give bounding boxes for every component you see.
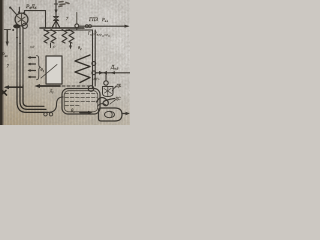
spring valve S2 stem + arrow [70, 43, 72, 47]
right pipe line 1 [92, 30, 94, 88]
flame swirl 2 [98, 104, 107, 106]
left out arrow [6, 86, 22, 88]
valve V1 arrowhead [54, 10, 57, 15]
horizontal wire [66, 29, 93, 31]
valve V1 V-legs [53, 21, 60, 28]
GPZ line [79, 25, 128, 27]
top smudge [59, 2, 69, 7]
nozzle body [103, 87, 114, 97]
box P6D6 outline [25, 11, 46, 28]
svg-text:ГПЗ: ГПЗ [88, 18, 98, 23]
pump bottom blob [13, 24, 20, 28]
spring valve S1 zigzag a [44, 30, 49, 44]
node circle upper right [92, 62, 96, 66]
svg-text:ДС: ДС [114, 96, 121, 101]
nozzle inner hatch [104, 87, 112, 96]
corner smudge [2, 90, 7, 95]
down-arrow tick [4, 29, 10, 31]
curly brace [37, 56, 41, 80]
spring valve S2 zigzag b [69, 30, 74, 44]
thick left arrow mid [38, 85, 60, 87]
nozzle feed wire [105, 75, 107, 82]
heat arrows left [27, 56, 35, 78]
manifold bar [40, 27, 84, 29]
nozzle top circle [104, 81, 108, 85]
svg-text:ДБ: ДБ [115, 83, 122, 88]
s-curve up to box [48, 97, 63, 112]
bundle end circles [44, 113, 47, 116]
node dot [12, 29, 14, 31]
spring valve S2 zigzag a [62, 30, 67, 44]
combustor out arrow [80, 112, 90, 114]
pump U1 circle [15, 13, 28, 26]
paper background [0, 0, 130, 125]
combustor circle node [88, 86, 94, 92]
vertical pipe from pump 2 [19, 28, 21, 86]
leader line [41, 65, 57, 79]
valve V1 top tick [54, 3, 57, 5]
swirl leader [110, 100, 115, 104]
Dpb arrowhead [111, 71, 116, 74]
nozzle leader [112, 86, 116, 91]
servo rectangle [46, 56, 62, 84]
Dpb bowtie 1 [99, 71, 107, 75]
flame swirl 1 [97, 98, 115, 106]
afterburner out arrow [122, 113, 128, 115]
down-arrow head [6, 42, 9, 47]
pipe flow marks [16, 37, 21, 46]
valve V1 bowtie [54, 17, 59, 21]
svg-text:«МГ»: «МГ» [92, 77, 100, 81]
pump small bottom circle [22, 23, 27, 28]
GPZ small circles [85, 25, 88, 28]
Dpb line [96, 72, 130, 74]
GPZ line arrowhead [125, 25, 130, 28]
node circle mid right [92, 71, 96, 75]
big spring zigzag [75, 55, 90, 83]
wire to node [76, 13, 78, 24]
svg-text:Дп.б: Дп.б [110, 66, 119, 71]
pump inner hatch [18, 14, 26, 26]
spring valve S1 zigzag b [51, 30, 56, 44]
down-arrow indicator wire [6, 30, 8, 43]
pump top knobs [18, 11, 20, 13]
afterburner vessel [99, 108, 123, 121]
svg-text:б': б' [53, 45, 56, 49]
right pipe line 2 [94, 30, 96, 86]
bundle curve 2 [20, 85, 46, 109]
valve stack V1 wire [55, 0, 57, 28]
pump inlet diagonal wire [10, 7, 16, 14]
combustor box [62, 89, 100, 115]
vertical pipe from pump 1 [16, 27, 18, 87]
spring valve S1 stem [50, 43, 52, 48]
afterburner inner [105, 111, 115, 117]
scan edge left border [0, 0, 3, 125]
pump top stub wire [18, 7, 20, 13]
vertical pipe from pump 3 [22, 27, 24, 85]
wire from node down [76, 28, 78, 30]
dashed continuation [62, 85, 92, 87]
combustor inner hatch lines [65, 94, 97, 106]
node circle top [75, 24, 79, 28]
bundle curve 3 [17, 86, 48, 112]
bundle curve 1 [23, 85, 44, 106]
combustor inner wall [64, 91, 98, 112]
